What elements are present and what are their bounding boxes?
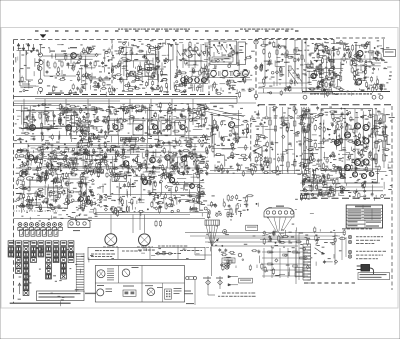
transistor drawing 3: [97, 285, 112, 296]
heater caption: [342, 228, 372, 229]
IF interstage network 1: [42, 105, 96, 143]
thermal fuse boxes: [295, 230, 303, 284]
ladder labels: [265, 105, 311, 175]
vert osc extra parts: [17, 171, 98, 210]
transistor drawing 4: [145, 285, 163, 295]
tuner value labels: [18, 44, 111, 97]
IF input parts: [260, 46, 333, 97]
ladder value labels: [250, 105, 312, 175]
pincushion corner parts: [204, 194, 254, 219]
band coil drums: [179, 76, 208, 84]
convergence plug socket: [68, 220, 90, 232]
IF amp stage 2: [61, 112, 75, 130]
heater rails: [255, 233, 345, 240]
pilot lamps lower: [348, 250, 386, 258]
power extra2: [300, 167, 344, 196]
component column 1: [8, 247, 14, 257]
terminal board ladder: [76, 253, 84, 292]
bottom dashed rail right: [304, 282, 355, 284]
component column 3: [23, 247, 29, 296]
tuning coil drums: [208, 69, 250, 78]
component column 5: [38, 247, 44, 257]
chassis left dashed border: [13, 40, 15, 304]
chart strip text: [91, 251, 181, 258]
pincushion labels: [158, 246, 195, 256]
vert osc extra3: [16, 174, 93, 211]
index triangle marker: [40, 35, 46, 38]
coil switch S2: [22, 84, 33, 92]
interlock label box: [239, 278, 253, 283]
driver parts: [302, 106, 325, 172]
IF row1 top labels: [109, 102, 209, 125]
IF interstage network 2: [76, 107, 110, 148]
chart strip top: [88, 250, 205, 260]
deflection yoke socket: [264, 206, 294, 218]
component column 7: [53, 247, 59, 263]
diagonal traces: [288, 68, 302, 84]
horizontal transistors: [142, 177, 194, 188]
IF row2 labels: [17, 146, 205, 177]
label AF279: [70, 47, 77, 48]
sound section top dashed: [336, 37, 385, 39]
crt parts: [264, 251, 309, 276]
tuner internal divider 2: [208, 40, 210, 94]
adjust arrow: [214, 238, 219, 243]
driver wiring: [303, 108, 318, 168]
convergence strip with fan: [205, 220, 219, 252]
power labels: [295, 167, 392, 201]
buffer parts: [160, 59, 169, 92]
adjust arrow: [18, 283, 21, 294]
fuse F1: [184, 276, 197, 305]
delay line DL1: [121, 138, 139, 142]
RF amp bias network: [44, 59, 76, 76]
right top dashed border: [333, 40, 335, 89]
chart strip dividers: [91, 247, 202, 259]
osc extra parts: [113, 46, 168, 92]
IF row1 wiring left: [19, 105, 108, 142]
bleeder chains: [375, 108, 385, 168]
ladder extra parts: [255, 107, 310, 175]
sound IF and audio network: [308, 41, 385, 94]
top label row: [112, 39, 210, 47]
UHF link parts: [212, 80, 252, 99]
tuner extra parts: [19, 44, 110, 83]
AFC parts lower: [250, 155, 270, 176]
vert osc wiring: [16, 174, 89, 209]
IF row2 extra3: [28, 148, 202, 175]
waveform test points: [97, 194, 107, 207]
vertical ladder: [269, 107, 310, 174]
chassis top dashed border: [14, 39, 335, 41]
heater area labels: [300, 229, 341, 266]
voltage chart table: [346, 205, 382, 228]
label L86A L86B: [50, 51, 66, 52]
IF transformer cans T1-T5: [108, 121, 185, 136]
IF strip supply buses: [14, 97, 238, 102]
switch labels: [213, 42, 253, 94]
audio transistors Q11 Q12 Q13: [311, 51, 363, 86]
component column 8: [61, 247, 67, 279]
output extra labels: [303, 109, 393, 172]
pilot lamps upper: [348, 235, 383, 243]
input trap C1: [43, 54, 68, 59]
power extra parts: [307, 166, 391, 199]
left supply rail 2: [14, 103, 237, 105]
vertical oscillator network: [16, 172, 96, 215]
component column 6: [46, 247, 52, 279]
power transformer T101: [303, 244, 325, 280]
horiz wiring: [110, 173, 204, 210]
mid bottom rails: [205, 171, 310, 174]
power rectifier network: [300, 167, 346, 201]
AFC dashed box: [251, 118, 310, 175]
turret terminals row: [18, 223, 63, 231]
convergence labels: [206, 203, 314, 252]
centering resistors: [155, 220, 162, 227]
yoke fan wires: [262, 218, 292, 239]
connector pinout drawing: [165, 288, 182, 299]
tuner internal divider 1: [111, 40, 113, 94]
IF amp stage 1 shield box: [24, 111, 54, 130]
AFC discriminator: [253, 147, 268, 156]
output transistors bank: [335, 123, 370, 171]
yoke feed wires: [95, 213, 210, 234]
tuner output coils: [188, 47, 198, 51]
switch labels extra: [211, 47, 252, 92]
pincushion labels: [210, 195, 248, 217]
crt socket parts: [263, 230, 310, 245]
tuner out extra parts: [174, 51, 207, 93]
oscillator wiring: [116, 45, 159, 91]
AFC parts upper: [253, 121, 269, 148]
degauss network: [218, 248, 263, 271]
transistor drawing 2: [122, 267, 138, 277]
heater area parts: [303, 226, 346, 264]
output wiring: [323, 111, 363, 154]
AGC feed parts: [47, 78, 111, 95]
sync network: [211, 118, 251, 177]
vertical osc box: [48, 188, 68, 208]
stage drop wires: [24, 99, 193, 125]
heater rail extension: [185, 233, 255, 237]
sync extra parts: [211, 108, 249, 172]
sound rails: [302, 39, 306, 91]
balun coils L1 L2: [38, 44, 43, 94]
transistor Q1 RF amp: [71, 53, 77, 59]
row2 drop wires: [28, 144, 195, 171]
oscillator trimmers and OSC box: [145, 43, 161, 90]
parts grid header labels: [8, 241, 74, 246]
component column 2: [16, 247, 22, 274]
wire antenna drop: [20, 51, 36, 87]
interlock arrows: [228, 276, 238, 287]
lamp label rows: [356, 243, 378, 259]
video det transistors: [28, 155, 186, 167]
IF input labels: [259, 40, 336, 94]
IF row2 wiring: [25, 147, 195, 173]
regulator box: [345, 169, 378, 183]
horiz section labels: [95, 171, 206, 217]
band switch ladder: [177, 44, 211, 68]
top caption row: [118, 29, 293, 30]
output stage box: [321, 109, 373, 171]
right block border: [391, 106, 393, 290]
deflection yoke plugs: [103, 234, 153, 248]
vert osc labels: [14, 170, 95, 213]
sync labels: [209, 105, 253, 173]
output wiring: [181, 48, 207, 91]
sound extra parts: [309, 42, 384, 93]
oscillator value labels: [112, 43, 169, 93]
lower IF network right: [112, 148, 208, 181]
dashed border top right: [258, 38, 333, 40]
IF link transformer: [169, 45, 174, 91]
sync wiring: [212, 110, 245, 172]
tuner output network: [174, 41, 209, 93]
sound section labels: [304, 42, 392, 98]
semiconductor chart box: [95, 266, 184, 303]
degauss label box: [222, 258, 235, 263]
horizontal AFC hv network: [110, 170, 207, 215]
footnote lines: [208, 289, 256, 297]
CRT lead grid: [262, 248, 308, 278]
chart strip box: [88, 247, 205, 259]
parts grid labels: [15, 241, 84, 307]
tuner wiring: [51, 52, 110, 91]
sound extra labels: [302, 43, 391, 93]
antenna input arrows: [17, 43, 36, 51]
tuner output labels: [174, 43, 209, 93]
shield divider feedthroughs: [254, 39, 258, 101]
switch extra labels: [215, 45, 255, 93]
mid rail: [14, 144, 211, 146]
transistor drawing 1: [97, 269, 114, 281]
chart labels: [89, 248, 200, 262]
wire from kite: [195, 252, 212, 276]
lower IF network left: [18, 145, 108, 177]
speaker connector J1: [384, 39, 396, 57]
AC power plug: [357, 265, 374, 275]
feedthrough beads: [303, 95, 383, 99]
IF extra labels: [17, 104, 207, 175]
vertical voltage labels: [374, 120, 388, 145]
supply node: [14, 105, 61, 107]
IF row2 extra2: [20, 146, 209, 178]
upper dashed rail: [35, 30, 300, 32]
tuner bottom dashed border caption: [46, 92, 210, 94]
left labels final: [26, 207, 97, 219]
IF row1 labels: [14, 104, 213, 148]
power dashed border: [300, 197, 390, 199]
right ladder strip: [308, 250, 311, 283]
IF row1 bottom parts: [110, 134, 211, 149]
circled test point: [223, 230, 227, 234]
section border dash: [237, 97, 392, 105]
fuse links row: [20, 230, 59, 236]
terminal strip labels: [21, 214, 92, 221]
switch shaft box: [238, 42, 246, 65]
power note box: [358, 273, 390, 280]
interlock contacts: [203, 276, 223, 289]
yoke note box: [246, 225, 258, 230]
diagonal link wires: [205, 103, 256, 120]
vertical output transistors: [79, 197, 91, 205]
IF input ladder: [258, 40, 333, 93]
output block labels: [300, 107, 395, 174]
bottom rule: [10, 302, 71, 304]
mixer-oscillator network: [77, 46, 112, 94]
component column 9: [68, 247, 74, 263]
oscillator network: [111, 42, 161, 92]
IF stage rails: [16, 111, 205, 169]
electrolytic capacitors C31 C32: [18, 177, 33, 181]
power mid rails: [300, 183, 383, 187]
sound wiring: [309, 41, 382, 86]
channel selector switch S1: [210, 41, 237, 65]
IC drawing: [123, 286, 136, 297]
power mid parts: [302, 179, 384, 201]
bottom rails center: [205, 238, 310, 246]
B+ rail caption: [300, 191, 383, 194]
label 300-ohm: [15, 57, 18, 63]
IF row1 extra parts: [19, 103, 207, 148]
corner labels: [342, 40, 380, 59]
sync separator Q6: [229, 122, 235, 128]
output extra parts: [303, 110, 390, 172]
osc extra4: [111, 46, 167, 91]
IF input extra parts: [260, 41, 331, 93]
IF row2 extra parts: [15, 146, 208, 178]
dotted border: [14, 210, 59, 212]
thermistor and switch: [225, 253, 242, 269]
horiz extra parts: [100, 172, 203, 217]
strip feed wire: [14, 218, 206, 220]
heater drop wires: [335, 233, 346, 266]
output stage parts: [321, 109, 370, 172]
sound bottom rail caption: [302, 92, 390, 95]
IF row1 wiring right: [114, 104, 202, 143]
caution note box: [37, 291, 97, 301]
power wiring: [300, 170, 342, 195]
hv regulator box: [112, 174, 127, 182]
switch parts extra: [210, 45, 255, 91]
turret terminal centers: [19, 224, 61, 226]
IF row2 final fill: [26, 148, 100, 178]
component column 4: [31, 247, 37, 263]
